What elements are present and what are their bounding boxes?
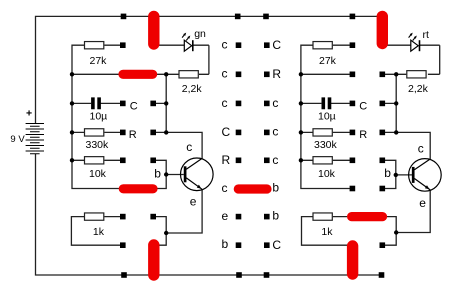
junction busL r4	[70, 130, 74, 134]
wire 330k right leads	[301, 131, 350, 133]
red jumpers	[123, 16, 383, 275]
wire bottom rail	[36, 154, 382, 275]
junction vertL r3	[164, 101, 168, 105]
junction busR r4	[299, 130, 303, 134]
wire left collector net	[153, 74, 202, 159]
wire 1k left bracket	[71, 217, 120, 246]
wire 330k left leads	[72, 131, 120, 133]
resistor R 10k right	[313, 157, 336, 180]
svg-text:c: c	[272, 153, 278, 167]
resistor R 330k right	[313, 129, 338, 151]
svg-text:330k: 330k	[314, 139, 338, 151]
node C3	[236, 101, 242, 107]
junction vertL r4	[164, 130, 168, 134]
node C8	[236, 242, 242, 248]
node A5	[120, 158, 126, 164]
svg-text:C: C	[272, 38, 281, 52]
junction busL r5	[70, 158, 74, 162]
junction 2,2k left	[164, 72, 168, 76]
wire 1k right bracket	[302, 217, 353, 246]
node C1	[236, 42, 242, 48]
wire top rail	[36, 16, 383, 123]
resistor R 27k right	[313, 42, 337, 67]
resistor R 1k left	[85, 213, 105, 238]
junction busR r5	[299, 158, 303, 162]
svg-text:b: b	[272, 208, 279, 222]
jumper row2 left	[123, 70, 153, 79]
junction base right	[394, 173, 398, 177]
wire left base bracket	[153, 160, 184, 188]
node E1	[350, 42, 356, 48]
node D8	[264, 242, 270, 248]
jumper row6 left	[123, 184, 153, 193]
svg-text:e: e	[222, 209, 229, 223]
svg-text:10µ: 10µ	[318, 111, 336, 123]
jumper row6 middle	[238, 184, 267, 193]
wire 10k right leads	[301, 159, 350, 161]
node C5	[236, 158, 242, 164]
node B3	[150, 101, 156, 107]
resistor R 2,2k right	[407, 71, 429, 95]
node B5	[150, 158, 156, 164]
svg-text:b: b	[272, 181, 279, 195]
wire left emitter net	[153, 190, 202, 246]
svg-text:c: c	[272, 96, 278, 110]
svg-text:b: b	[154, 167, 161, 181]
node A7	[120, 214, 126, 220]
wire right row2	[301, 45, 440, 74]
jumper top left vertical	[148, 16, 159, 44]
svg-text:C: C	[359, 101, 367, 113]
node C4	[236, 130, 242, 136]
svg-text:c: c	[222, 181, 228, 195]
jumper bottom right vertical	[347, 246, 358, 274]
node D7	[264, 214, 270, 220]
board letters right column	[272, 38, 281, 252]
node F2	[380, 72, 386, 78]
node D4	[264, 130, 270, 136]
node F6	[380, 186, 386, 192]
svg-text:2,2k: 2,2k	[182, 83, 203, 95]
node E2	[350, 72, 356, 78]
svg-text:C: C	[130, 101, 138, 113]
junction vertR r4	[394, 130, 398, 134]
junction 2,2k right	[394, 72, 398, 76]
node B4	[150, 130, 156, 136]
junction busL r2	[70, 72, 74, 76]
junction emitter right	[394, 230, 398, 234]
LED rt right	[409, 29, 429, 51]
node A1	[120, 42, 126, 48]
svg-text:+: +	[26, 107, 32, 119]
node bottom D	[264, 272, 270, 278]
junction base left	[164, 172, 168, 176]
junction busR r2	[299, 72, 303, 76]
node bottom C	[236, 272, 242, 278]
node top E	[350, 14, 356, 20]
node F3	[380, 101, 386, 107]
wire left row2	[72, 45, 209, 74]
svg-text:10k: 10k	[318, 168, 336, 180]
svg-text:e: e	[419, 196, 426, 210]
svg-text:330k: 330k	[86, 139, 110, 151]
svg-text:b: b	[222, 237, 229, 251]
wire right bus	[301, 45, 350, 188]
svg-text:C: C	[222, 125, 231, 139]
node F5	[380, 158, 386, 164]
svg-text:b: b	[384, 166, 391, 180]
node top A	[121, 14, 127, 20]
resistor R 10k left	[85, 157, 107, 180]
node A8	[120, 242, 126, 248]
node E5	[350, 158, 356, 164]
node F8	[380, 242, 386, 248]
node E6	[350, 186, 356, 192]
wire left bus	[72, 45, 123, 188]
battery BT1 9V	[26, 124, 44, 154]
transistor Q1 left	[154, 140, 213, 209]
resistor R 1k right	[313, 213, 333, 238]
node C2	[236, 72, 242, 78]
node C7	[236, 214, 242, 220]
node D1	[264, 42, 270, 48]
svg-text:10µ: 10µ	[90, 111, 108, 123]
board letters left column	[222, 38, 231, 251]
svg-text:R: R	[359, 129, 367, 141]
junction vertR r3	[394, 101, 398, 105]
svg-text:gn: gn	[194, 28, 206, 40]
wire 10u left leads	[72, 102, 120, 104]
jumper bottom left vertical	[148, 245, 159, 275]
wire right base bracket	[385, 160, 413, 188]
node A4	[120, 130, 126, 136]
svg-text:27k: 27k	[90, 55, 108, 67]
svg-text:10k: 10k	[89, 168, 107, 180]
node D5	[264, 158, 270, 164]
junction emitter left	[164, 231, 168, 235]
wire 10k left leads	[72, 159, 120, 161]
board contact squares	[120, 14, 385, 278]
resistor R 2,2k left	[179, 71, 202, 95]
svg-text:R: R	[272, 67, 281, 81]
resistor R 27k left	[85, 42, 108, 67]
svg-text:9 V: 9 V	[10, 134, 25, 145]
wire right collector net	[385, 74, 431, 159]
LED gn left	[182, 28, 206, 51]
node D3	[264, 101, 270, 107]
svg-text:e: e	[190, 195, 197, 209]
node F4	[380, 130, 386, 136]
svg-text:c: c	[222, 96, 228, 110]
svg-text:c: c	[222, 67, 228, 81]
svg-text:c: c	[272, 124, 278, 138]
svg-text:2,2k: 2,2k	[408, 83, 429, 95]
wire right emitter net	[382, 190, 430, 245]
junction busR r3	[299, 101, 303, 105]
svg-text:C: C	[272, 238, 281, 252]
svg-text:1k: 1k	[321, 226, 333, 238]
wire 10u right leads	[301, 102, 350, 104]
junction busL r3	[70, 101, 74, 105]
svg-text:c: c	[222, 38, 228, 52]
svg-text:R: R	[222, 153, 231, 167]
capacitor C 10u right	[318, 97, 336, 122]
svg-text:27k: 27k	[319, 55, 337, 67]
jumper row7 right	[352, 212, 383, 221]
svg-text:R: R	[129, 129, 137, 141]
wire 27k left leads	[104, 44, 123, 46]
node D2	[264, 72, 270, 78]
svg-text:rt: rt	[423, 29, 429, 41]
node top C	[235, 14, 241, 20]
jumper top right vertical	[377, 16, 388, 43]
node E4	[350, 130, 356, 136]
transistor Q2 right	[384, 142, 441, 211]
svg-text:c: c	[186, 140, 192, 154]
resistor R 330k left	[85, 129, 110, 151]
node bottom F	[379, 272, 385, 278]
wire 27k right leads	[333, 44, 350, 46]
node bottom A	[121, 272, 127, 278]
node E3	[350, 101, 356, 107]
capacitor C 10u left	[90, 97, 108, 122]
svg-text:1k: 1k	[93, 226, 105, 238]
node A3	[120, 101, 126, 107]
node B7	[150, 214, 156, 220]
node top D	[263, 14, 269, 20]
svg-text:c: c	[418, 142, 424, 156]
